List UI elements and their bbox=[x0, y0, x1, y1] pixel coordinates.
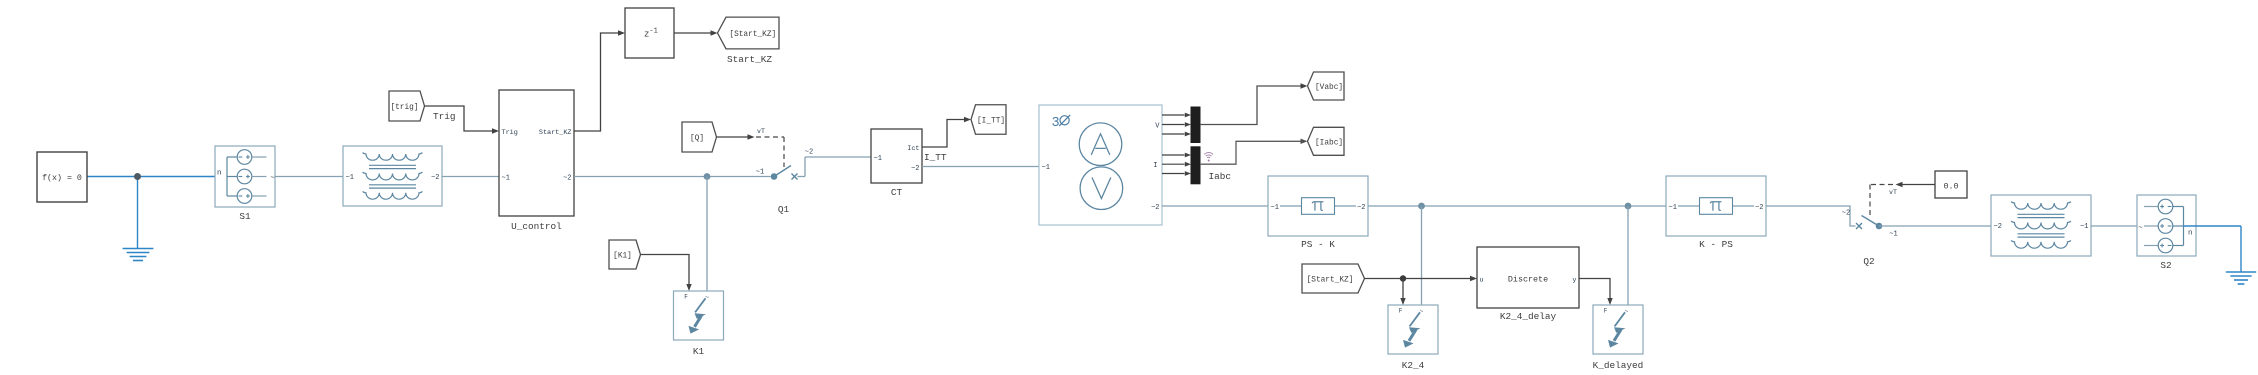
svg-text:~1: ~1 bbox=[1271, 204, 1279, 212]
svg-text:Start_KZ: Start_KZ bbox=[727, 54, 772, 65]
svg-text:~: ~ bbox=[1625, 308, 1629, 315]
svg-text:[trig]: [trig] bbox=[390, 104, 418, 112]
svg-text:Start_KZ: Start_KZ bbox=[539, 129, 572, 137]
svg-text:f(x) = 0: f(x) = 0 bbox=[42, 173, 82, 183]
svg-text:vT: vT bbox=[1889, 189, 1897, 196]
svg-text:~1: ~1 bbox=[1889, 231, 1897, 239]
svg-text:Q1: Q1 bbox=[778, 204, 790, 215]
svg-text:~1: ~1 bbox=[346, 174, 354, 182]
svg-text:[I_TT]: [I_TT] bbox=[977, 118, 1005, 126]
svg-text:Discrete: Discrete bbox=[1508, 275, 1548, 285]
svg-text:vT: vT bbox=[757, 128, 765, 135]
svg-text:F: F bbox=[1604, 307, 1608, 314]
svg-text:K2_4: K2_4 bbox=[1402, 360, 1425, 371]
svg-text:[Start_KZ]: [Start_KZ] bbox=[1307, 277, 1354, 285]
svg-text:~2: ~2 bbox=[1994, 223, 2002, 231]
svg-text:[Q]: [Q] bbox=[690, 135, 704, 143]
svg-text:[Iabc]: [Iabc] bbox=[1315, 139, 1343, 147]
svg-text:I_TT: I_TT bbox=[924, 152, 947, 163]
svg-text:~: ~ bbox=[1420, 308, 1424, 315]
svg-text:y: y bbox=[1572, 277, 1576, 285]
svg-text:~1: ~1 bbox=[756, 169, 764, 177]
svg-text:S2: S2 bbox=[2160, 260, 2171, 271]
svg-text:I: I bbox=[1153, 162, 1157, 170]
svg-text:~2: ~2 bbox=[563, 175, 571, 183]
svg-text:Iabc: Iabc bbox=[1209, 171, 1232, 182]
svg-text:[Vabc]: [Vabc] bbox=[1315, 84, 1343, 92]
svg-text:U_control: U_control bbox=[511, 221, 562, 232]
svg-text:[K1]: [K1] bbox=[613, 253, 632, 261]
svg-text:~2: ~2 bbox=[1755, 204, 1763, 212]
svg-text:n: n bbox=[2188, 230, 2193, 238]
svg-text:~1: ~1 bbox=[1669, 204, 1677, 212]
svg-text:K2_4_delay: K2_4_delay bbox=[1500, 311, 1557, 322]
svg-text:Q2: Q2 bbox=[1863, 256, 1874, 267]
svg-text:~2: ~2 bbox=[805, 149, 813, 157]
svg-text:~2: ~2 bbox=[1151, 204, 1159, 212]
svg-text:K - PS: K - PS bbox=[1699, 239, 1733, 250]
svg-text:Trig: Trig bbox=[433, 111, 456, 122]
svg-text:0.0: 0.0 bbox=[1943, 182, 1958, 192]
svg-text:~1: ~1 bbox=[2080, 223, 2088, 231]
svg-text:K_delayed: K_delayed bbox=[1593, 360, 1644, 371]
svg-text:Ict: Ict bbox=[907, 145, 919, 153]
svg-text:Trig: Trig bbox=[502, 129, 518, 137]
svg-text:~2: ~2 bbox=[1842, 210, 1850, 218]
svg-text:3: 3 bbox=[1052, 116, 1060, 131]
svg-text:~1: ~1 bbox=[1042, 164, 1050, 172]
svg-text:n: n bbox=[217, 170, 222, 178]
svg-text:~2: ~2 bbox=[1357, 204, 1365, 212]
svg-text:~1: ~1 bbox=[502, 175, 510, 183]
svg-text:[Start_KZ]: [Start_KZ] bbox=[729, 31, 776, 39]
svg-text:~: ~ bbox=[270, 175, 275, 183]
svg-text:~2: ~2 bbox=[431, 174, 439, 182]
svg-text:S1: S1 bbox=[239, 211, 251, 222]
svg-text:F: F bbox=[684, 293, 688, 300]
svg-text:CT: CT bbox=[891, 187, 903, 198]
svg-text:~2: ~2 bbox=[911, 165, 919, 173]
svg-text:u: u bbox=[1480, 277, 1484, 285]
svg-text:~: ~ bbox=[705, 294, 709, 301]
svg-text:~1: ~1 bbox=[874, 155, 882, 163]
svg-text:F: F bbox=[1399, 307, 1403, 314]
svg-text:~: ~ bbox=[2138, 225, 2143, 233]
svg-text:PS - K: PS - K bbox=[1301, 239, 1335, 250]
svg-text:K1: K1 bbox=[693, 346, 705, 357]
